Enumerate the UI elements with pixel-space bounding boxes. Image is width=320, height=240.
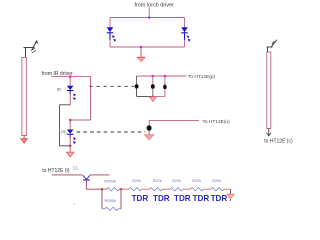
wire to torch ground bbox=[140, 47, 142, 57]
resistor R22k 1 bbox=[129, 188, 142, 191]
phototransistor contact 1 bbox=[135, 84, 139, 89]
ground single contact bbox=[144, 135, 153, 140]
wire LED1 bottom lead bbox=[69, 92, 71, 105]
wire black return path bbox=[60, 105, 71, 146]
wire to IR ground bbox=[69, 146, 71, 152]
wire contact 1 upper lead bbox=[136, 76, 138, 84]
diode D1 bbox=[83, 175, 90, 183]
stray dot bbox=[73, 203, 74, 204]
svg-text:R22k: R22k bbox=[153, 179, 162, 183]
svg-text:TDR: TDR bbox=[153, 194, 170, 203]
svg-text:TDR: TDR bbox=[193, 194, 210, 203]
svg-text:R050k: R050k bbox=[104, 179, 116, 184]
wire D1 right stub bbox=[90, 174, 110, 176]
wire chain end bbox=[224, 188, 231, 190]
wire torch bottom rail bbox=[110, 46, 185, 48]
wire single contact to HT12E(u) bbox=[149, 120, 199, 126]
svg-text:D1: D1 bbox=[73, 165, 78, 169]
node box top junction 1 bbox=[152, 75, 155, 78]
svg-text:To HT12E(p): To HT12E(p) bbox=[188, 74, 216, 80]
resistor R22k 2 bbox=[150, 188, 163, 191]
svg-text:TDR: TDR bbox=[132, 194, 149, 203]
resistor R22k 3 bbox=[170, 188, 183, 191]
wire IR branch to LED2 bbox=[70, 119, 90, 121]
LED D_right torch bbox=[181, 27, 191, 42]
wire contact 3 lower lead bbox=[164, 89, 166, 96]
node R pair right bbox=[120, 188, 122, 190]
svg-text:IR: IR bbox=[57, 87, 61, 92]
phototransistor contact 3 bbox=[163, 85, 167, 90]
node torch top junction bbox=[148, 16, 151, 19]
phototransistor contact 2 bbox=[151, 84, 155, 89]
wire box bottom rail right bbox=[153, 95, 165, 97]
svg-text:To HT12E(u): To HT12E(u) bbox=[203, 119, 231, 125]
wire contact 2 lower lead bbox=[152, 89, 154, 97]
wire under left tube bbox=[23, 136, 25, 140]
wire chain segment 2 bbox=[142, 188, 150, 190]
resistor R22k 5 bbox=[211, 188, 224, 191]
wire chain segment 3 bbox=[162, 188, 170, 190]
wire receiver box top rail bbox=[137, 75, 187, 77]
wire from IR driver bbox=[52, 76, 91, 78]
ground chain end bbox=[227, 194, 234, 199]
ground receiver box bbox=[149, 97, 156, 102]
LED D_IR1 bbox=[67, 86, 76, 101]
wire contact 3 upper lead bbox=[164, 76, 166, 85]
resistor R050k lower bbox=[102, 207, 121, 210]
svg-text:from torch driver: from torch driver bbox=[135, 3, 174, 9]
wire parallel branch right bbox=[120, 189, 122, 209]
wire LED1 top lead bbox=[69, 77, 71, 86]
LED D_left torch bbox=[107, 27, 117, 42]
wire box bottom rail left bbox=[137, 95, 153, 97]
svg-text:to HT12E (c): to HT12E (c) bbox=[264, 139, 293, 145]
wire chain segment 4 bbox=[183, 188, 191, 190]
svg-text:from IR driver: from IR driver bbox=[42, 71, 73, 77]
wire parallel branch left bbox=[101, 189, 103, 209]
svg-text:to HT12E (t): to HT12E (t) bbox=[42, 168, 70, 174]
node R pair left bbox=[101, 188, 103, 190]
wire LED2 top lead bbox=[69, 120, 71, 129]
node LED2 top junction bbox=[69, 119, 72, 122]
phototransistor contact 4 bbox=[147, 125, 152, 131]
svg-text:IR: IR bbox=[61, 129, 65, 134]
node torch bottom junction bbox=[140, 46, 143, 49]
aerial tube right bbox=[267, 52, 271, 129]
wire contact 1 lower lead bbox=[136, 89, 138, 97]
node box bottom junction bbox=[152, 95, 154, 97]
aerial tube left bbox=[22, 58, 26, 136]
node IR wire junction bbox=[69, 75, 72, 78]
wire chain segment 1 bbox=[121, 188, 129, 190]
svg-text:R22k: R22k bbox=[192, 179, 201, 183]
wire from HT12E (t) bbox=[52, 174, 83, 176]
antenna right bbox=[267, 40, 277, 52]
resistor R22k 4 bbox=[191, 188, 204, 191]
wire torch top rail bbox=[110, 17, 185, 19]
wire feed from torch driver label bbox=[148, 8, 150, 18]
dashed optical link 2 bbox=[77, 131, 146, 133]
wire contact 2 upper lead bbox=[152, 76, 154, 84]
svg-text:R22k: R22k bbox=[172, 179, 181, 183]
svg-text:TDR: TDR bbox=[174, 194, 191, 203]
wire IR right branch down bbox=[90, 77, 92, 120]
node box top junction 2 bbox=[164, 75, 167, 78]
svg-text:R050k: R050k bbox=[105, 198, 117, 203]
wire LED2 bottom lead bbox=[69, 135, 71, 146]
node LED2 bottom junction bbox=[69, 145, 71, 147]
arrow under left tube bbox=[21, 139, 28, 144]
svg-text:R22k: R22k bbox=[212, 179, 221, 183]
wire chain segment 5 bbox=[203, 188, 211, 190]
resistor R050k upper bbox=[102, 188, 121, 191]
ground IR leds bbox=[66, 152, 74, 157]
wire D1 down lead bbox=[86, 180, 102, 189]
wire contact 4 lower lead bbox=[148, 131, 150, 135]
ground torch bbox=[137, 57, 145, 61]
LED D_IR2 bbox=[67, 130, 76, 145]
svg-text:R22k: R22k bbox=[132, 179, 141, 183]
wire torch left leg bbox=[109, 18, 111, 48]
antenna left bbox=[24, 41, 38, 58]
svg-text:TDR: TDR bbox=[211, 194, 228, 203]
dashed optical link 1 bbox=[90, 85, 135, 87]
arrow under right tube bbox=[268, 129, 270, 136]
wire torch right leg bbox=[184, 18, 186, 48]
